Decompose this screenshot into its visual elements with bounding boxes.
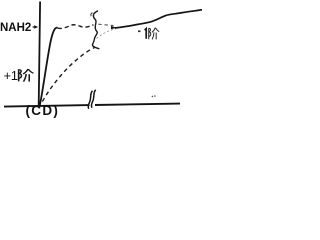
mid break squiggle main [92,11,99,49]
mid break squiggle faint partner [91,13,93,17]
dashed horizontal line (NAH2 level) [58,25,94,29]
two small dots on axis [152,96,154,98]
main solid curve (upper right) [115,10,202,28]
steep solid line (+1 order asymptote) [40,28,58,106]
hanzi jie (order) big: left-middle label [19,69,34,82]
NAH2 label [0,22,31,34]
(CD) label [26,103,60,118]
+1 label [4,68,18,83]
x-axis break squiggle left [88,91,92,109]
digit 1 of right label [145,29,147,39]
x-axis right segment [95,104,180,105]
dashed segment after break [98,24,113,25]
x-axis left segment [4,105,90,107]
NAH2 pointer arrow [33,26,35,28]
x-axis break squiggle right [91,90,95,108]
faint smudge arc below junction [97,29,117,39]
dot of "·1jie" label [138,30,141,32]
dashed curve from origin [42,48,94,102]
hanzi jie (order) small: right label [149,28,159,40]
arrowhead at curve junction [111,26,117,29]
y-axis [39,2,40,106]
